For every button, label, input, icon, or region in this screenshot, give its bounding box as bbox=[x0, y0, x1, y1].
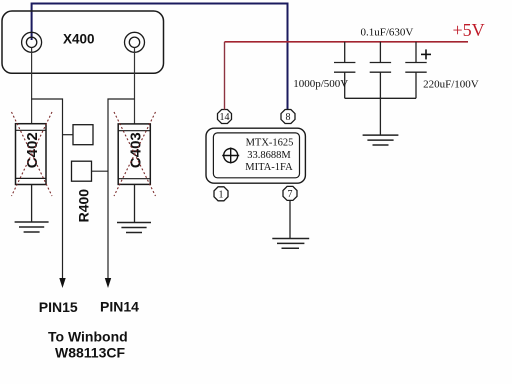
svg-text:PIN14: PIN14 bbox=[100, 299, 139, 315]
svg-text:MTX-1625: MTX-1625 bbox=[246, 137, 294, 148]
svg-text:8: 8 bbox=[286, 112, 291, 123]
svg-text:1: 1 bbox=[219, 189, 224, 200]
svg-text:R400: R400 bbox=[76, 189, 92, 223]
svg-text:C402: C402 bbox=[24, 132, 41, 168]
svg-text:7: 7 bbox=[288, 189, 293, 200]
svg-text:14: 14 bbox=[220, 112, 230, 123]
svg-text:220uF/100V: 220uF/100V bbox=[423, 78, 479, 90]
svg-text:C403: C403 bbox=[127, 132, 144, 168]
svg-text:W88113CF: W88113CF bbox=[55, 344, 125, 360]
svg-text:PIN15: PIN15 bbox=[39, 299, 78, 315]
svg-text:To Winbond: To Winbond bbox=[48, 328, 128, 344]
svg-text:+5V: +5V bbox=[453, 20, 485, 40]
svg-text:1000p/500V: 1000p/500V bbox=[293, 78, 348, 90]
svg-text:33.8688M: 33.8688M bbox=[247, 150, 291, 161]
svg-text:MITA-1FA: MITA-1FA bbox=[245, 162, 293, 173]
svg-text:X400: X400 bbox=[63, 31, 95, 46]
svg-text:0.1uF/630V: 0.1uF/630V bbox=[361, 27, 414, 39]
